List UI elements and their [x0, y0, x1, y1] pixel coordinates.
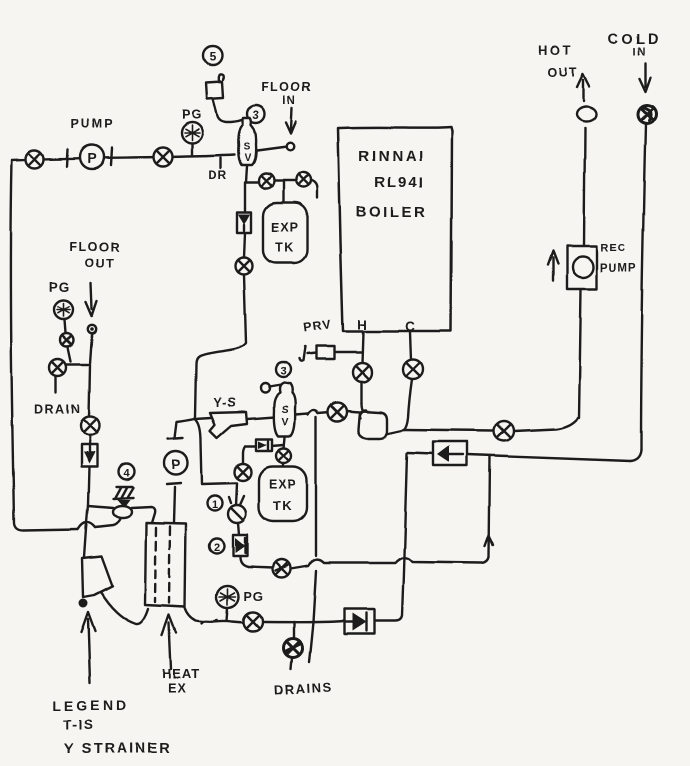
wire: loop exit to C junction: [386, 430, 404, 434]
svg-text:T-IS: T-IS: [64, 717, 95, 732]
arrow: floor out: [86, 283, 97, 316]
relief valve cone: [117, 500, 130, 508]
wire: below valve V5 zigzag to Y-S junction: [195, 275, 246, 417]
valve V3: [259, 174, 274, 189]
wire: hop-over crossing floor-out line: [78, 522, 95, 529]
svg-text:OUT: OUT: [85, 256, 115, 270]
pressure gauge PG3: [55, 301, 74, 320]
svg-text:PUMP: PUMP: [600, 263, 637, 275]
wire: valve V6 to H-loop: [346, 411, 359, 412]
wire: drain branch to floor-out line: [66, 363, 88, 365]
circled 1: [208, 496, 223, 511]
valve V17 below SV-2: [277, 449, 292, 464]
svg-text:HEAT: HEAT: [162, 666, 200, 681]
check valve CV5: [256, 439, 272, 451]
wire: CV2 down and elbow right: [240, 557, 248, 567]
svg-text:LEGEND: LEGEND: [53, 697, 129, 713]
relief valve hatching: [113, 487, 133, 499]
svg-text:C: C: [405, 319, 415, 334]
rec pump: [567, 246, 597, 289]
svg-text:PG: PG: [49, 280, 71, 295]
wire: PRV left stub: [299, 347, 316, 362]
svg-text:PG: PG: [244, 590, 264, 604]
valve V6: [328, 403, 347, 422]
valve V5: [236, 258, 253, 275]
wire: cold line elbow into check line: [630, 450, 641, 461]
svg-text:EX: EX: [168, 681, 187, 695]
arrow: floor in: [286, 108, 296, 134]
svg-text:3: 3: [280, 366, 286, 378]
arrow: heat ex pointer: [162, 615, 176, 669]
valve V16 drain: [50, 359, 67, 376]
mixing valve port dot: [79, 599, 88, 608]
svg-text:DR: DR: [208, 168, 227, 182]
svg-text:5: 5: [210, 50, 217, 64]
wire: CV5 horizontal link: [243, 445, 284, 464]
arrow: hot out: [577, 74, 589, 101]
wire: SV-2 to junction node: [295, 414, 308, 415]
wire: cold-in drop: [641, 123, 646, 450]
wire: main hot-water line to rec pump: [404, 418, 578, 431]
wire: valve V18 to ball valve: [236, 483, 237, 506]
wire: ball valve to CV2: [238, 523, 239, 535]
svg-text:HOT: HOT: [539, 43, 574, 58]
hot out port oval: [576, 107, 596, 122]
svg-text:REC: REC: [601, 242, 627, 254]
valve V14: [81, 417, 100, 436]
pressure gauge PG2: [217, 586, 239, 608]
circled 3 mid: [276, 363, 291, 378]
svg-text:PUMP: PUMP: [71, 117, 115, 131]
svg-text:EXP: EXP: [269, 478, 297, 492]
wire: rec pump riser lower: [579, 290, 581, 418]
svg-text:OUT: OUT: [548, 66, 579, 80]
svg-text:PG: PG: [182, 107, 203, 122]
valve V8 on C: [403, 359, 423, 379]
wire: floor-out column: [84, 334, 92, 557]
svg-text:3: 3: [253, 110, 259, 122]
wire: bottom pipe left of CV3: [185, 608, 344, 623]
wire: PG3 gauge stem: [65, 320, 66, 333]
svg-text:FLOOR: FLOOR: [261, 80, 312, 94]
node: floor-in stub: [286, 143, 294, 151]
wire: SV-2 bottom to valve V17: [284, 437, 285, 449]
wire: pump 2 stub from junction: [175, 419, 195, 438]
svg-text:FLOOR: FLOOR: [69, 240, 120, 254]
svg-text:V: V: [245, 153, 252, 164]
wire: main supply pipe top: [12, 155, 235, 160]
ball valve with handle: [228, 496, 246, 523]
arrow: legend pointer: [81, 612, 95, 683]
svg-text:S: S: [244, 142, 251, 153]
svg-text:IN: IN: [283, 95, 298, 107]
arrow: flow arrowhead on x490: [485, 535, 493, 546]
svg-text:RL94I: RL94I: [375, 174, 426, 191]
heat exchanger: [145, 523, 186, 607]
wire: x316 drain drop: [309, 417, 316, 662]
valve V12: [244, 613, 263, 632]
wire: left return riser down and elbow right: [11, 160, 78, 530]
arrow: cold in: [640, 63, 651, 91]
check valve CV2: [233, 535, 247, 556]
valve V9: [494, 421, 514, 441]
wire: relief line from floor-out to heat exchanger: [88, 506, 155, 523]
cold in valve heavy: [638, 105, 656, 123]
svg-text:S: S: [281, 404, 288, 416]
pump P1: [80, 145, 104, 169]
expansion tank 2: [259, 467, 307, 522]
circled 4: [118, 464, 134, 480]
svg-text:RINNAI: RINNAI: [359, 148, 426, 165]
valve V13 drain heavy: [284, 639, 303, 658]
wire: PG2 stem: [227, 608, 228, 621]
valve V1: [26, 150, 44, 168]
wire: rec pump riser upper to hot-out: [584, 128, 585, 245]
check valve CV3: [344, 609, 374, 634]
wire: drop to check valve CV1: [244, 182, 246, 212]
svg-text:TK: TK: [273, 499, 293, 514]
wire: junction to valve V6: [318, 412, 329, 413]
svg-text:IN: IN: [633, 46, 647, 58]
wire: DR stub: [220, 158, 222, 168]
svg-text:TK: TK: [275, 241, 295, 255]
wire: C valve down to main junction: [404, 379, 412, 430]
wire: drain stub: [55, 375, 57, 392]
svg-text:H: H: [357, 317, 367, 332]
svg-text:EXP: EXP: [271, 221, 299, 235]
wire: valve V15 to drain valve: [68, 347, 71, 361]
svg-text:Y STRAINER: Y STRAINER: [64, 741, 172, 757]
wire: pump 2 to heat exchanger: [174, 487, 175, 523]
svg-text:BOILER: BOILER: [356, 204, 428, 221]
arrow: rec pump flow: [548, 251, 558, 281]
wire: branch to exp tank 1: [246, 180, 317, 203]
wire: into relief valve bottom: [95, 517, 120, 527]
wire: hand-drawn loop tangle: [358, 403, 387, 438]
valve V15: [61, 334, 74, 347]
wire: Y-S line left of strainer: [195, 418, 211, 419]
expansion tank 1: [263, 203, 307, 263]
check valve CV1: [237, 212, 251, 233]
wire: pipe from SV-1 to floor-in stub: [257, 147, 287, 151]
wire: boiler C drop: [410, 332, 411, 360]
node: floor-out stub: [88, 325, 96, 333]
wire: solenoid box 5 to SV-1 neck: [213, 99, 245, 122]
circled 5: [204, 47, 223, 66]
check valve CV4: [81, 445, 97, 467]
relief valve oval: [113, 506, 132, 518]
wire: SV-1 drop: [246, 166, 247, 182]
wire: Y-S strainer to SV-2: [247, 417, 275, 419]
wire: between CV1 and valve V5: [244, 233, 245, 258]
boiler RINNAI RL94I: [338, 127, 452, 331]
junction bulge: [308, 410, 318, 415]
valve V18: [235, 464, 252, 481]
svg-text:2: 2: [214, 542, 220, 554]
check-4 box: [433, 442, 467, 466]
wire: mixing valve outlet curve to heat exchanger bottom: [100, 591, 148, 624]
pump P2: [165, 438, 188, 484]
valve V7 on H: [353, 363, 372, 382]
wire: drain valve stem: [291, 622, 294, 669]
svg-text:DRAIN: DRAIN: [34, 402, 81, 416]
valve V2: [154, 148, 173, 167]
wire: y563 horizontal with two hop-overs: [248, 558, 482, 569]
valve V4: [296, 173, 311, 188]
wire: boiler H drop: [362, 332, 363, 363]
solenoid valve SV-2: [261, 383, 296, 436]
svg-text:Y-S: Y-S: [213, 396, 236, 410]
circled 3 top: [247, 105, 265, 123]
svg-text:1: 1: [212, 499, 218, 511]
wire: C branch vertical down to bottom pipe: [375, 454, 407, 621]
pressure gauge PG1: [182, 123, 203, 157]
solenoid valve SV-1: [239, 118, 256, 165]
wire: junction drop to y484 and over to valve V18 branch: [196, 420, 236, 484]
svg-text:DRAINS: DRAINS: [274, 679, 334, 697]
wire: valve V17 to exp tank 2: [283, 463, 284, 467]
PRV box: [316, 346, 334, 359]
valve V11: [272, 560, 290, 578]
wire: PRV to H line: [334, 351, 362, 353]
wire: H valve to loop: [360, 381, 362, 403]
svg-text:P: P: [87, 150, 96, 166]
svg-text:P: P: [172, 457, 181, 472]
solenoid box 5: [206, 75, 224, 99]
mixing valve T-IS body: [82, 556, 112, 597]
svg-text:V: V: [281, 416, 288, 428]
union tick right of pump 1: [111, 148, 112, 165]
wire: check-4 line: [408, 453, 630, 461]
wire: doubled squiggle on bottom pipe: [202, 620, 217, 624]
Y strainer body: [210, 412, 247, 438]
svg-text:4: 4: [123, 468, 130, 480]
circled 2: [210, 539, 225, 554]
wire: vertical x490 with up arrow: [482, 456, 490, 563]
union tick left of pump 1: [67, 149, 68, 166]
